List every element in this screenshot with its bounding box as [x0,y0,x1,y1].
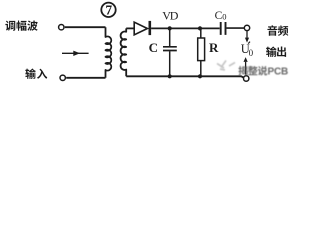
svg-text:VD: VD [162,9,178,23]
svg-text:PCB: PCB [268,67,289,78]
svg-text:R: R [209,40,219,55]
svg-text:C: C [149,40,158,55]
svg-text:0: 0 [222,11,226,21]
svg-text:0: 0 [249,48,254,58]
svg-text:7: 7 [105,3,112,18]
